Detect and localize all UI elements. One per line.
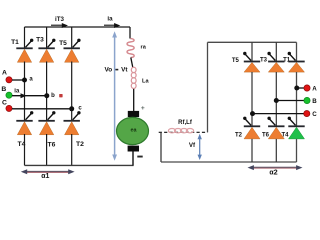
svg-text:c: c	[78, 105, 82, 111]
thyristor T1	[16, 39, 33, 63]
wire: La to motor	[133, 89, 135, 112]
svg-text:Vf: Vf	[189, 142, 196, 149]
svg-text:Rf,Lf: Rf,Lf	[178, 120, 193, 126]
terminal A dot (right)	[304, 85, 310, 91]
svg-text:T5: T5	[59, 40, 67, 47]
terminal C dot (right)	[304, 111, 310, 117]
inductor Rf,Lf coil	[168, 129, 193, 133]
terminal C dot	[6, 105, 12, 111]
svg-text:T2: T2	[235, 133, 243, 139]
wire: column 1 middle	[24, 62, 26, 122]
svg-text:a: a	[29, 77, 33, 83]
resistor ra	[127, 39, 134, 58]
svg-text:T3: T3	[36, 37, 44, 44]
thyristor T6 (right)	[267, 117, 284, 139]
svg-text:T5: T5	[232, 58, 240, 64]
motor ea	[117, 117, 149, 144]
wire: bus corner down to ra	[129, 27, 131, 39]
svg-text:α1: α1	[41, 173, 49, 180]
svg-text:T6: T6	[262, 133, 270, 139]
wire: field dashed line	[159, 131, 208, 133]
wire: top bus left bridge	[25, 26, 131, 28]
inductor La	[131, 67, 136, 88]
wire: column 3 lower	[71, 134, 73, 165]
wire: bottom bus left bridge	[25, 164, 134, 166]
dimension alpha2	[248, 165, 303, 170]
thyristor T4 (right, green)	[288, 117, 305, 139]
arrow ia	[104, 23, 120, 28]
thyristor T2 (right)	[243, 117, 260, 139]
thyristor T3 (right)	[267, 52, 284, 72]
svg-text:A: A	[312, 86, 317, 93]
svg-text:iT3: iT3	[55, 16, 64, 23]
wire: right column 1 middle	[251, 72, 253, 126]
thyristor T1 (right)	[288, 52, 305, 72]
svg-text:ea: ea	[131, 128, 138, 134]
svg-text:B: B	[1, 86, 6, 93]
terminal A dot	[6, 77, 12, 83]
svg-text:B: B	[312, 98, 317, 105]
svg-text:Vo: Vo	[104, 66, 112, 73]
wire: column 1 upper	[24, 27, 26, 48]
wire: right column 2 upper	[275, 42, 277, 61]
arrow iT3	[51, 23, 68, 28]
wire: column 1 lower	[24, 134, 26, 165]
svg-text:A: A	[2, 70, 7, 77]
wire: right column 1 upper	[251, 42, 253, 61]
wire: motor to bottom bus	[132, 151, 134, 165]
wire: right bridge left edge	[207, 42, 209, 132]
wire: bottom bus right	[161, 161, 297, 163]
wire: right column 3 middle	[296, 72, 298, 126]
wire: right column 2 lower	[275, 139, 277, 162]
label -	[137, 156, 142, 158]
node C right	[250, 111, 255, 116]
node a	[22, 78, 27, 83]
wire: C line right	[252, 113, 304, 115]
wire: column 2 lower	[46, 134, 48, 165]
motor terminal bottom	[128, 146, 139, 152]
wire: top bus right bridge	[208, 41, 297, 43]
svg-text:Vt: Vt	[121, 66, 128, 73]
wire: phase C to node c	[12, 108, 72, 110]
svg-text:La: La	[142, 79, 149, 85]
svg-text:α2: α2	[269, 169, 277, 176]
thyristor T5	[63, 39, 80, 63]
wire: column 3 middle	[71, 62, 73, 122]
wire: field left vertical	[160, 132, 162, 162]
svg-text:ra: ra	[141, 44, 147, 50]
wire: right column 1 lower	[251, 139, 253, 162]
wire: right column 3 (edge) upper	[296, 42, 298, 61]
wire: phase B to node b with arrow	[12, 93, 47, 98]
terminal B dot	[6, 92, 12, 98]
svg-text:T1: T1	[11, 39, 19, 46]
svg-text:T1: T1	[283, 58, 291, 64]
wire: right column 3 lower	[296, 139, 298, 162]
wire: ra to La	[131, 58, 133, 68]
svg-text:C: C	[2, 100, 7, 107]
thyristor T6	[38, 111, 55, 135]
wire: column 2 middle	[46, 62, 48, 122]
node A right	[294, 86, 299, 91]
wire: node to A dot	[297, 87, 304, 89]
svg-text:C: C	[312, 111, 317, 118]
wire: right column 2 middle	[275, 72, 277, 126]
wire: B line right	[276, 100, 304, 102]
svg-text:T6: T6	[48, 142, 56, 149]
motor terminal top	[128, 111, 139, 117]
thyristor T2	[63, 111, 80, 135]
thyristor T3	[38, 39, 55, 63]
svg-text:ia: ia	[107, 16, 113, 23]
svg-text:b: b	[51, 93, 55, 99]
wire: column 2 upper	[46, 27, 48, 48]
svg-text:T2: T2	[76, 141, 84, 148]
arrow Vo (blue vertical)	[112, 31, 117, 160]
svg-text:T4: T4	[281, 133, 289, 139]
thyristor T4	[16, 111, 33, 135]
node c	[69, 106, 74, 111]
node b	[44, 93, 49, 98]
thyristor T5 (right)	[243, 52, 260, 72]
node B right	[274, 98, 279, 103]
red square marker	[59, 94, 62, 97]
svg-text:T3: T3	[260, 57, 268, 63]
wire: phase A to node a	[12, 79, 25, 81]
wire: column 3 upper	[71, 27, 73, 48]
dimension alpha1	[21, 169, 75, 174]
arrow Vf (blue double)	[198, 134, 202, 160]
svg-text:+: +	[141, 105, 145, 112]
svg-text:ia: ia	[14, 88, 20, 94]
terminal B dot (right)	[304, 97, 310, 103]
